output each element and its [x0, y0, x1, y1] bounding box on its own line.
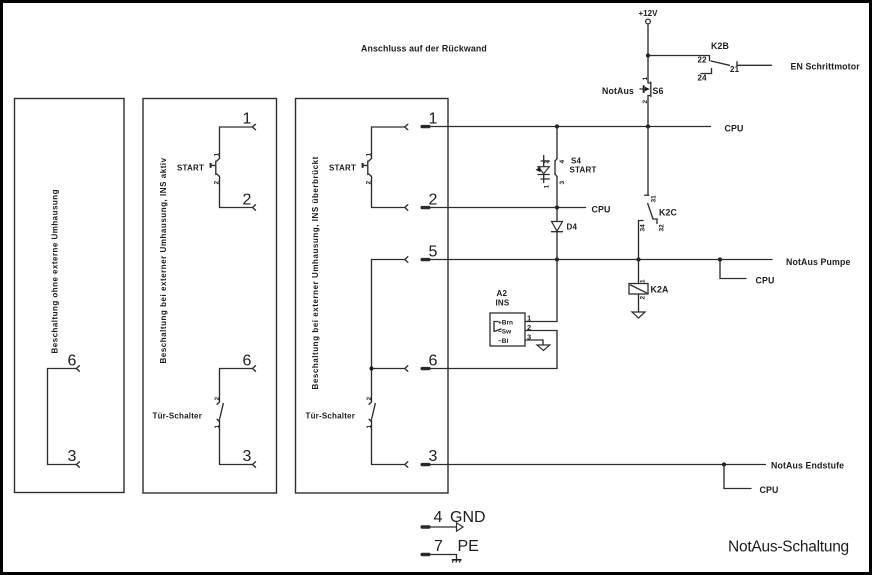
- K2C pin31 tick: [645, 194, 649, 196]
- ground arrow K2A: [632, 312, 645, 318]
- svg-text:CPU: CPU: [756, 276, 775, 286]
- svg-text:START: START: [177, 164, 204, 173]
- svg-text:EN Schrittmotor: EN Schrittmotor: [791, 62, 861, 72]
- svg-text:NotAus Endstufe: NotAus Endstufe: [771, 461, 844, 471]
- box3 junction node 6: [369, 366, 373, 370]
- terminal pad 1: [421, 125, 431, 128]
- svg-text:6: 6: [429, 353, 438, 370]
- wire row2: [431, 207, 586, 209]
- terminal pad 3: [421, 463, 431, 466]
- svg-text:1: 1: [366, 425, 373, 429]
- box3 connector chevron 3: [405, 462, 408, 468]
- svg-text:Tür-Schalter: Tür-Schalter: [153, 412, 203, 421]
- box 2 Beschaltung bei externer Umhausung, INS aktiv: [143, 99, 277, 494]
- diode D4: [552, 222, 563, 232]
- wire row1 to K2C: [647, 127, 649, 196]
- box2 connector chevron 3: [253, 462, 256, 468]
- svg-text:2: 2: [640, 296, 647, 300]
- svg-text:PE: PE: [458, 538, 479, 555]
- box 1 Beschaltung ohne externe Umhausung: [15, 99, 125, 493]
- wire row1 to CPU: [431, 126, 711, 128]
- svg-text:4: 4: [434, 509, 443, 526]
- wire to K2B pin22: [648, 55, 710, 57]
- svg-text:3: 3: [429, 448, 438, 465]
- svg-text:Tür-Schalter: Tür-Schalter: [306, 412, 356, 421]
- PE wire: [431, 555, 457, 560]
- svg-text:CPU: CPU: [760, 485, 779, 495]
- box2 connector chevron 2: [253, 205, 256, 211]
- svg-text:21: 21: [730, 65, 740, 74]
- CPU drop row3: [724, 465, 751, 489]
- INS box A2: [490, 313, 525, 346]
- wire K2B to EN Schrittmotor: [737, 64, 772, 66]
- svg-text:START: START: [570, 166, 597, 175]
- GND wire: [431, 526, 457, 528]
- svg-text:1: 1: [429, 111, 438, 128]
- svg-text:K2B: K2B: [711, 41, 729, 51]
- box3 START switch wires: [372, 127, 405, 208]
- svg-text:1: 1: [527, 314, 531, 323]
- svg-text:2: 2: [214, 181, 221, 185]
- terminal pad 5: [421, 258, 431, 261]
- svg-text:−Sw: −Sw: [498, 329, 512, 336]
- svg-text:1: 1: [243, 111, 252, 128]
- box2 connector chevron 1: [253, 124, 256, 130]
- box3 connector chevron 1: [405, 124, 408, 130]
- box2 Tür-Schalter wires: [220, 369, 253, 465]
- wire +12V down: [647, 24, 649, 83]
- box1 connector chevron 3: [76, 462, 79, 468]
- svg-text:+Brn: +Brn: [498, 320, 513, 327]
- K2C blade: [648, 204, 653, 220]
- svg-text:+12V: +12V: [639, 9, 659, 18]
- junction row2/S4: [555, 205, 559, 209]
- PE earth symbol: [452, 560, 462, 563]
- svg-text:7: 7: [434, 538, 443, 555]
- junction row1/S4: [555, 124, 559, 128]
- INS internal switch glyph: [494, 322, 501, 332]
- svg-text:2: 2: [214, 397, 221, 401]
- box3 connector chevron 2: [405, 205, 408, 211]
- box3 connector chevron 5: [405, 257, 408, 263]
- CPU drop row5: [720, 260, 746, 279]
- svg-text:CPU: CPU: [592, 205, 611, 215]
- K2B pin21 tick: [736, 62, 738, 66]
- svg-text:D4: D4: [567, 223, 578, 232]
- box2 connector chevron 6: [253, 366, 256, 372]
- svg-text:22: 22: [698, 56, 708, 65]
- box3 START pushbutton: [363, 159, 372, 177]
- svg-text:3: 3: [559, 181, 566, 185]
- svg-text:2: 2: [429, 192, 438, 209]
- box2 START pushbutton S: [211, 159, 220, 177]
- S4 branch wire bottom: [556, 177, 558, 208]
- terminal pad 2: [421, 206, 431, 209]
- svg-text:S6: S6: [653, 86, 664, 96]
- svg-text:−Bl: −Bl: [498, 338, 508, 345]
- svg-text:INS: INS: [496, 299, 510, 308]
- S4 pushbutton: [555, 159, 557, 177]
- svg-text:START: START: [329, 164, 356, 173]
- svg-text:3: 3: [68, 448, 77, 465]
- svg-text:1: 1: [544, 185, 551, 189]
- svg-text:2: 2: [527, 323, 531, 332]
- svg-text:3: 3: [243, 448, 252, 465]
- svg-text:NotAus-Schaltung: NotAus-Schaltung: [728, 539, 849, 556]
- svg-text:2: 2: [366, 181, 373, 185]
- ground arrow INS: [537, 345, 550, 351]
- svg-text:S4: S4: [571, 157, 582, 166]
- svg-text:Beschaltung bei externer Umhau: Beschaltung bei externer Umhausung, INS …: [311, 156, 320, 389]
- junction +12V/K2B: [646, 53, 650, 57]
- svg-text:32: 32: [659, 224, 666, 232]
- svg-text:1: 1: [214, 153, 221, 157]
- svg-text:1: 1: [214, 425, 221, 429]
- box3 vertical bus 5-6-3: [372, 260, 405, 465]
- GND arrow: [457, 523, 464, 531]
- box2 START switch wires: [220, 127, 253, 208]
- svg-text:6: 6: [243, 353, 252, 370]
- svg-text:24: 24: [698, 74, 708, 83]
- svg-text:5: 5: [429, 244, 438, 261]
- svg-text:2: 2: [544, 160, 551, 164]
- svg-text:Beschaltung bei externer Umhau: Beschaltung bei externer Umhausung, INS …: [159, 157, 168, 363]
- S6 NC pushbutton: [640, 82, 651, 97]
- junction row1/S6-K2C: [646, 124, 650, 128]
- D4 wire top: [556, 208, 558, 222]
- svg-text:Anschluss auf der Rückwand: Anschluss auf der Rückwand: [361, 44, 487, 54]
- K2B blade: [711, 61, 730, 65]
- svg-text:CPU: CPU: [725, 124, 744, 134]
- svg-text:4: 4: [559, 160, 566, 164]
- svg-text:2: 2: [243, 192, 252, 209]
- junction row5/D4: [555, 257, 559, 261]
- terminal pad 4 GND: [421, 525, 431, 528]
- svg-text:K2A: K2A: [651, 285, 669, 295]
- wire row3 NotAus Endstufe: [431, 464, 766, 466]
- svg-text:A2: A2: [497, 289, 508, 298]
- K2C pin32 hook: [653, 219, 657, 224]
- wire row6 to INS pin2: [431, 331, 558, 369]
- INS pin3 wire to ground: [525, 340, 543, 345]
- relay coil K2A: [629, 284, 648, 295]
- svg-text:6: 6: [68, 353, 77, 370]
- box3 Tür-Schalter switch blade: [369, 402, 375, 422]
- S4 lamp LED: [536, 156, 550, 183]
- svg-text:1: 1: [366, 153, 373, 157]
- svg-text:NotAus Pumpe: NotAus Pumpe: [786, 257, 851, 267]
- terminal pad 7 PE: [421, 553, 431, 556]
- box3 connector chevron 6: [405, 366, 408, 372]
- S4 branch wire top: [556, 127, 558, 159]
- svg-text:34: 34: [640, 224, 647, 232]
- junction row5/K2A: [636, 257, 640, 261]
- wire K2A coil top: [638, 260, 640, 284]
- svg-text:K2C: K2C: [659, 208, 677, 218]
- K2B pin24 hook: [701, 69, 712, 74]
- svg-text:1: 1: [642, 77, 649, 81]
- box1 bridge wire 6-3: [48, 369, 77, 465]
- svg-text:1: 1: [640, 279, 647, 283]
- svg-text:2: 2: [366, 397, 373, 401]
- D4 wire bottom: [556, 232, 558, 260]
- wire row5 junction to INS pin1: [525, 260, 557, 322]
- K2C pin34 hook: [639, 221, 644, 260]
- box2 Tür-Schalter switch blade: [217, 402, 223, 422]
- junction row3/CPU: [722, 462, 726, 466]
- svg-text:GND: GND: [450, 509, 486, 526]
- junction row5/CPU: [718, 257, 722, 261]
- svg-text:Beschaltung ohne externe Umhau: Beschaltung ohne externe Umhausung: [51, 189, 60, 353]
- box 3 Beschaltung bei externer Umhausung, INS überbrückt: [296, 99, 449, 494]
- wire S6 to row1: [647, 96, 649, 127]
- svg-text:31: 31: [651, 195, 658, 203]
- terminal pad 6: [421, 367, 431, 370]
- +12V supply circle: [646, 19, 651, 24]
- wire K2A coil bottom: [638, 294, 640, 312]
- wire row5 NotAus Pumpe: [431, 259, 773, 261]
- K2B pin22 tick: [709, 56, 711, 61]
- box1 connector chevron 6: [76, 366, 79, 372]
- svg-text:NotAus: NotAus: [602, 86, 634, 96]
